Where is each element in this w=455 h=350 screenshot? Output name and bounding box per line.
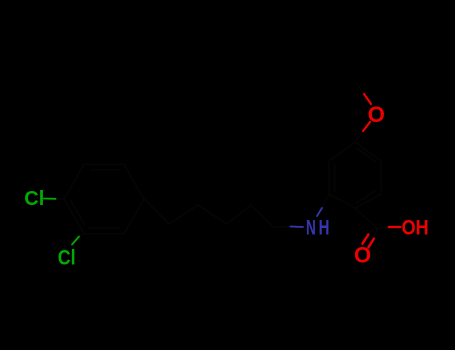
svg-text:O: O (354, 243, 371, 268)
svg-text:Cl: Cl (58, 246, 76, 270)
svg-text:N: N (306, 217, 316, 240)
svg-text:OH: OH (402, 217, 429, 240)
svg-text:Cl: Cl (24, 188, 44, 210)
svg-text:H: H (319, 217, 330, 240)
svg-text:O: O (368, 102, 385, 127)
